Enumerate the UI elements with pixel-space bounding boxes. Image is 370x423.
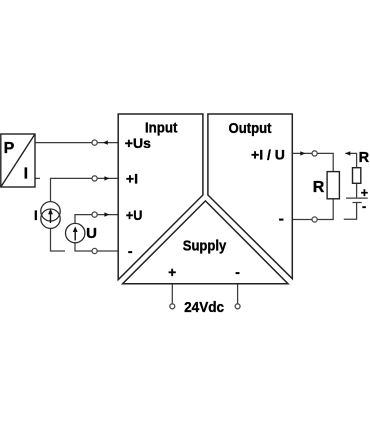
svg-text:24Vdc: 24Vdc [184,299,224,316]
svg-text:P: P [4,140,15,157]
svg-text:-: - [279,211,284,228]
svg-text:Output: Output [229,120,272,137]
svg-text:-: - [362,200,366,214]
svg-text:R: R [359,150,370,166]
svg-text:I: I [24,165,28,182]
svg-text:I: I [34,208,38,223]
svg-text:-: - [235,264,240,280]
svg-text:+: + [168,265,176,280]
svg-text:+I: +I [126,171,138,187]
svg-text:Supply: Supply [183,238,227,255]
svg-text:+U: +U [126,207,142,223]
svg-text:R: R [313,179,325,196]
svg-text:+: + [361,186,368,200]
svg-text:-: - [128,243,133,259]
svg-text:+Us: +Us [125,135,151,151]
svg-text:+I / U: +I / U [251,146,285,162]
svg-text:U: U [86,225,97,242]
